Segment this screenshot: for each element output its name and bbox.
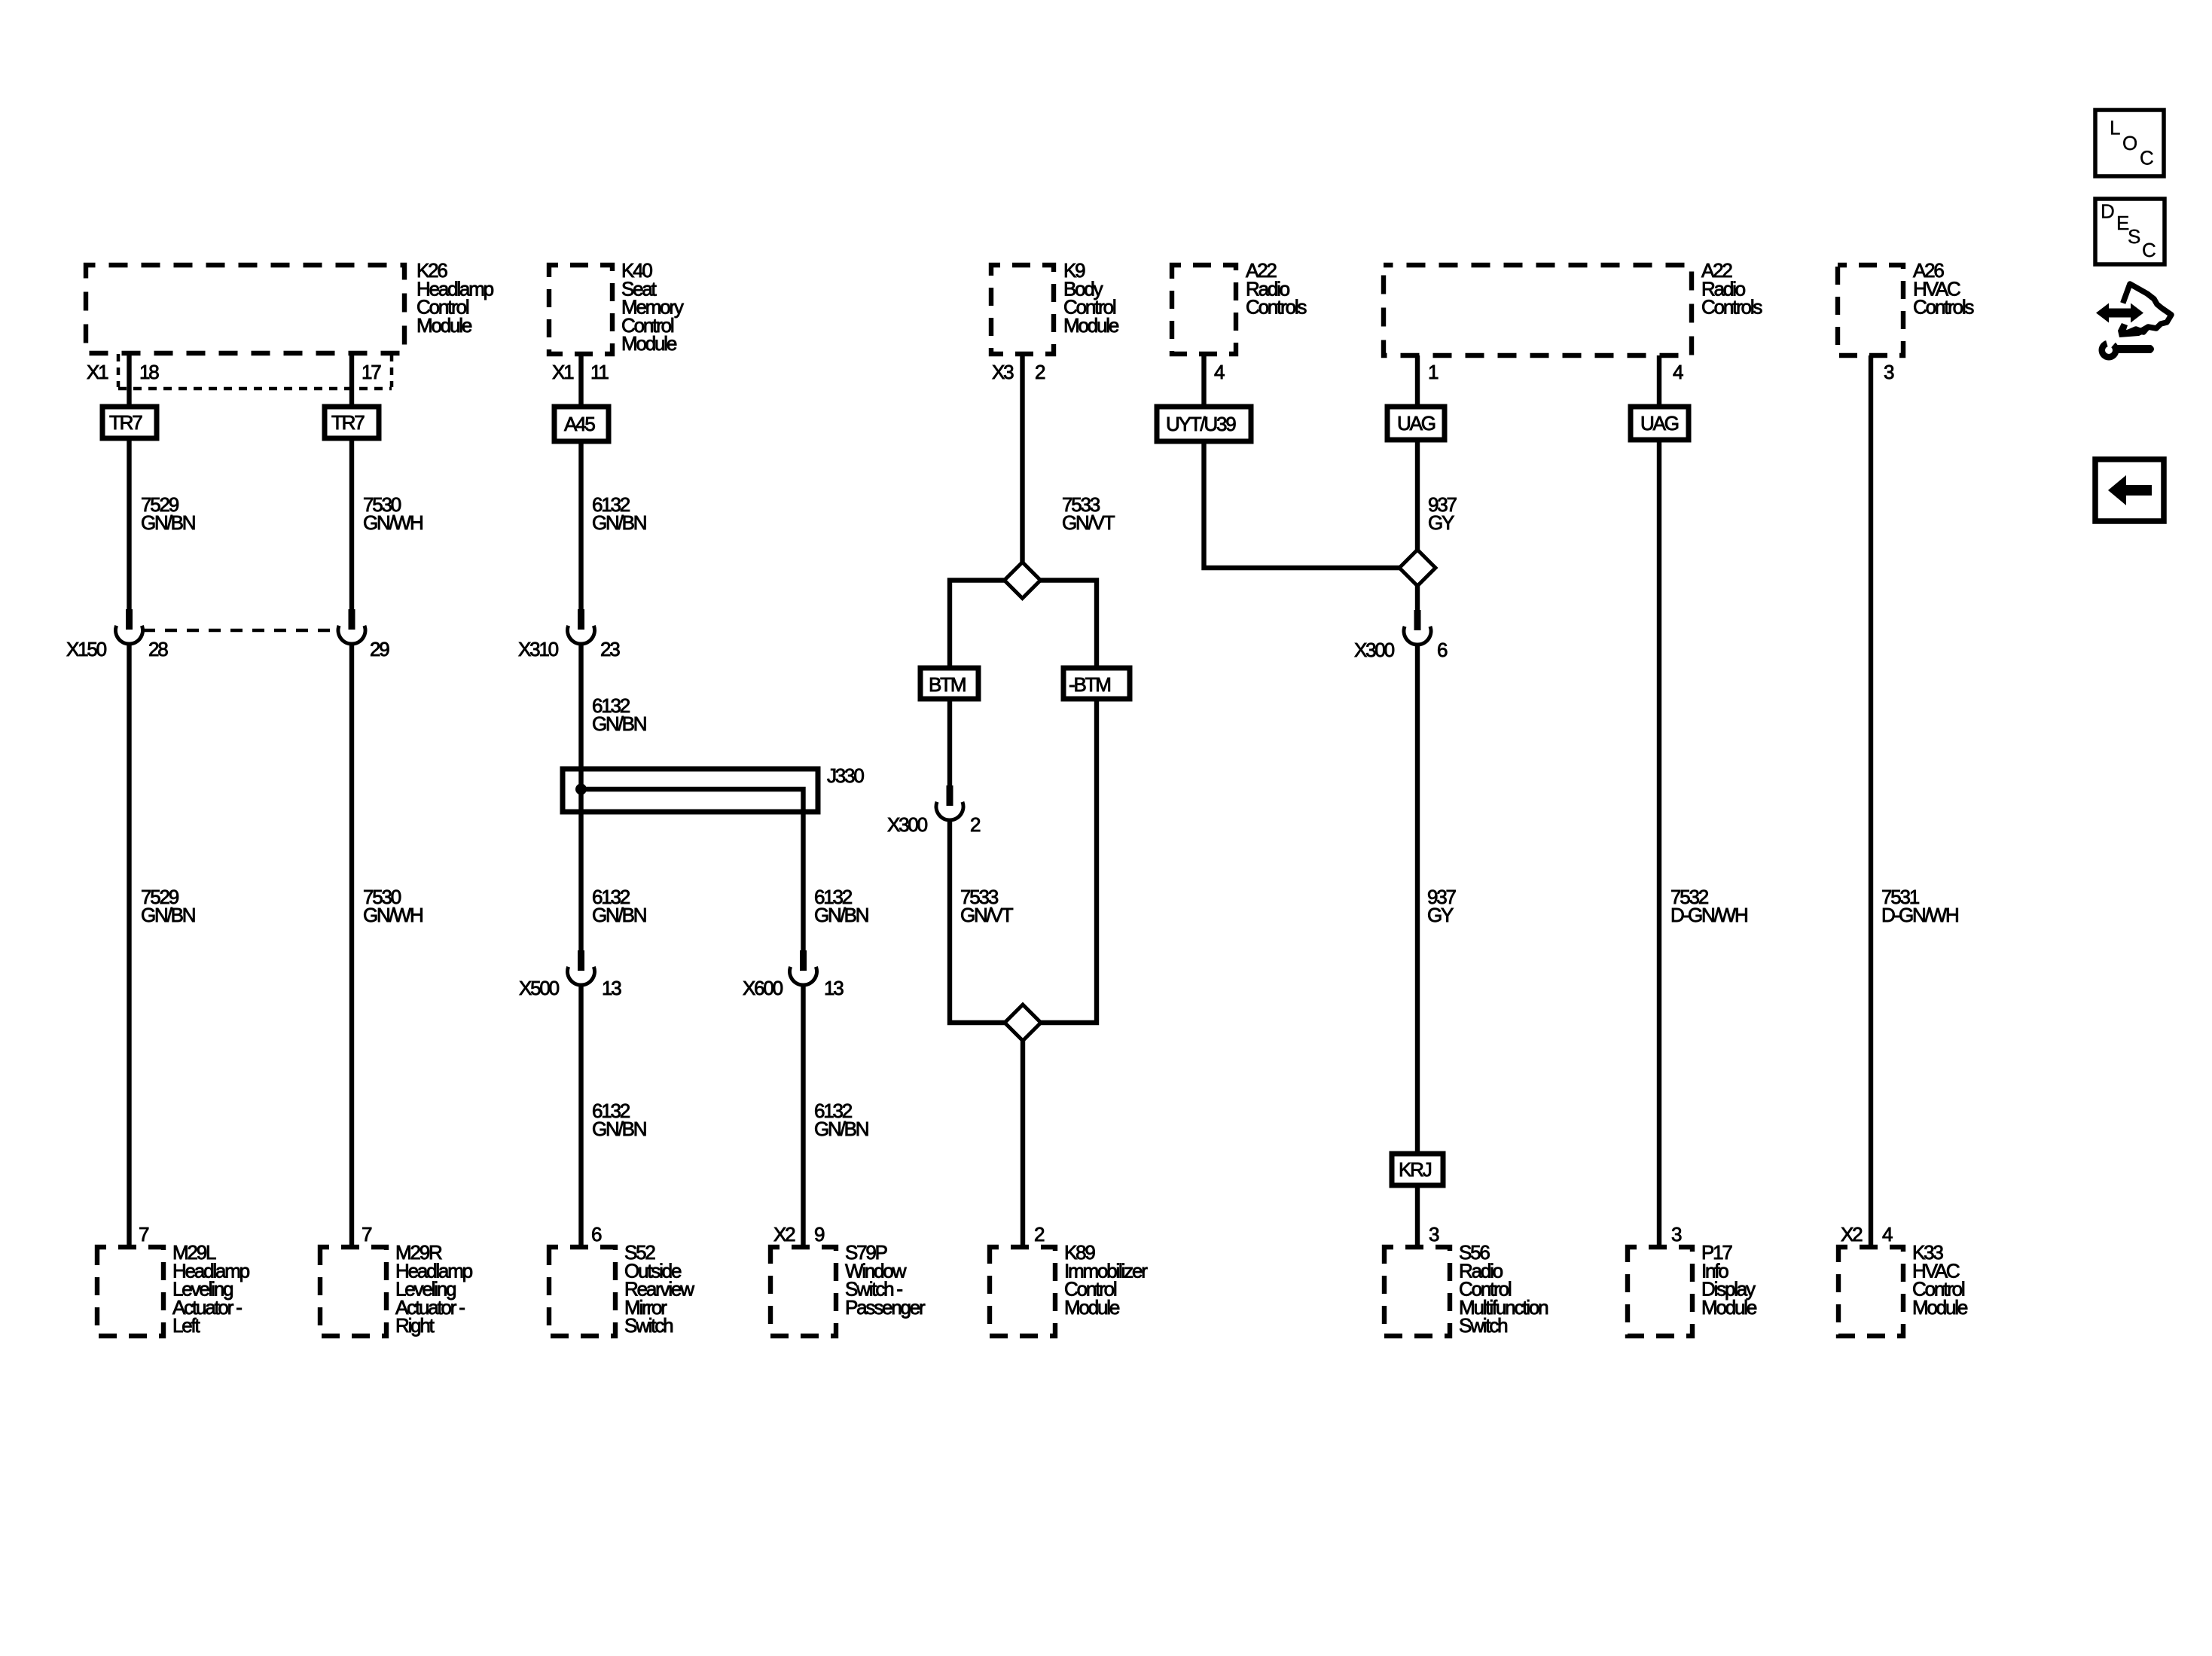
option BTM — [920, 668, 978, 699]
wire BTM to X300-2 — [947, 699, 952, 785]
wire A45 to X310-23 — [578, 441, 583, 609]
svg-text:X500: X500 — [519, 977, 560, 999]
svg-text:GY: GY — [1427, 904, 1454, 926]
module K40 Seat Memory Control Module (dashed box) — [549, 265, 612, 354]
wire TR7 to X150-29 — [349, 438, 354, 609]
wire K26 X1-18 to TR7 — [127, 353, 131, 407]
svg-text:X3: X3 — [992, 361, 1014, 383]
svg-text:X1: X1 — [552, 361, 574, 383]
option KRJ — [1392, 1154, 1443, 1185]
svg-text:6: 6 — [1437, 639, 1448, 661]
module K26 Headlamp Control Module (dashed box) — [86, 265, 404, 353]
wire diamond to X300-6 — [1415, 586, 1420, 610]
svg-text:X300: X300 — [1354, 639, 1395, 661]
svg-text:13: 13 — [602, 977, 621, 999]
connector X1 strip of K26 (thin dashed) — [117, 354, 121, 387]
svg-text:13: 13 — [824, 977, 844, 999]
svg-text:Module: Module — [621, 332, 677, 355]
wire X150-29 to M29R pin 7 — [349, 642, 354, 1247]
wire UAG to P17 pin 3 — [1657, 440, 1661, 1247]
svg-text:2: 2 — [970, 813, 981, 836]
svg-text:X1: X1 — [87, 361, 108, 383]
module K89 Immobilizer Control Module (dashed box) — [990, 1247, 1055, 1336]
wire diamond to BTM — [950, 581, 1005, 669]
svg-text:UYT/U39: UYT/U39 — [1166, 413, 1236, 435]
svg-text:23: 23 — [600, 638, 620, 660]
svg-text:GN/BN: GN/BN — [141, 904, 195, 926]
junction dot in J330 — [575, 784, 587, 795]
connector X310 pin 23 (breakaway) — [578, 609, 584, 630]
icon harness repair (arrows and wrench) — [2096, 303, 2143, 323]
splice diamond (K9 branch) — [1005, 563, 1041, 599]
svg-text:L: L — [2110, 117, 2120, 139]
svg-text:Right: Right — [395, 1314, 435, 1337]
svg-text:Controls: Controls — [1246, 296, 1307, 319]
svg-text:18: 18 — [139, 361, 159, 383]
wire merge diamond to K89 pin 2 — [1021, 1041, 1025, 1247]
module A22 Radio Controls large (dashed box) — [1384, 265, 1692, 355]
svg-text:C: C — [2140, 147, 2154, 169]
svg-text:X150: X150 — [66, 638, 107, 660]
svg-text:GN/BN: GN/BN — [814, 904, 868, 926]
svg-text:17: 17 — [362, 361, 381, 383]
wire A22 pin4 to UYT/U39 — [1201, 354, 1206, 407]
module M29L Headlamp Leveling Actuator - Left (dashed box) — [97, 1247, 163, 1336]
bus wire J330 to X600 branch — [581, 789, 804, 950]
module A26 HVAC Controls (dashed box) — [1838, 265, 1903, 355]
svg-text:Left: Left — [172, 1314, 201, 1337]
wire K26 X1-17 to TR7 — [349, 353, 354, 407]
wire X150-28 to M29L pin 7 — [127, 642, 131, 1247]
module K33 HVAC Control Module (dashed box) — [1838, 1247, 1903, 1336]
svg-text:D-GN/WH: D-GN/WH — [1881, 904, 1958, 926]
svg-text:Module: Module — [1063, 314, 1119, 337]
svg-text:UAG: UAG — [1640, 412, 1679, 435]
wire X300-2 to merge diamond — [950, 819, 1005, 1023]
wire UAG to merge diamond — [1415, 440, 1420, 550]
connector X150 pin 28 (breakaway) — [126, 609, 133, 630]
connector X600 pin 13 (breakaway) — [800, 950, 807, 971]
svg-text:-BTM: -BTM — [1069, 673, 1110, 696]
module M29R Headlamp Leveling Actuator - Right (dashed box) — [320, 1247, 386, 1336]
fuse TR7 (left) — [102, 407, 157, 438]
svg-text:4: 4 — [1882, 1223, 1893, 1246]
wire A26 pin3 to K33 X2-4 — [1869, 355, 1873, 1247]
merge diamond (to K89) — [1005, 1005, 1041, 1041]
merge diamond (937 GY) — [1399, 550, 1436, 586]
svg-text:3: 3 — [1429, 1223, 1439, 1246]
svg-text:Switch: Switch — [624, 1314, 673, 1337]
svg-text:TR7: TR7 — [109, 411, 142, 434]
svg-text:X300: X300 — [887, 813, 928, 836]
svg-text:GN/BN: GN/BN — [141, 511, 195, 534]
svg-text:4: 4 — [1673, 361, 1683, 383]
svg-text:Module: Module — [1701, 1296, 1757, 1319]
module P17 Info Display Module (dashed box) — [1628, 1247, 1692, 1336]
svg-text:X2: X2 — [773, 1223, 795, 1246]
svg-text:C: C — [2142, 239, 2156, 261]
svg-text:GN/BN: GN/BN — [592, 511, 646, 534]
svg-text:S: S — [2128, 225, 2140, 248]
svg-text:TR7: TR7 — [331, 411, 365, 434]
wire KRJ to S56 pin 3 — [1415, 1185, 1420, 1247]
svg-text:A45: A45 — [564, 413, 595, 435]
svg-text:GN/WH: GN/WH — [363, 511, 423, 534]
svg-text:Switch: Switch — [1459, 1314, 1507, 1337]
svg-text:29: 29 — [370, 638, 389, 660]
option UYT/U39 — [1157, 407, 1251, 441]
icon LOC box — [2095, 110, 2164, 176]
svg-text:2: 2 — [1035, 361, 1045, 383]
svg-text:X310: X310 — [518, 638, 559, 660]
svg-text:GN/VT: GN/VT — [1062, 511, 1115, 534]
connector X300 pin 6 (breakaway) — [1414, 610, 1421, 630]
svg-text:28: 28 — [148, 638, 168, 660]
wire X310-23 to J330 — [578, 642, 583, 950]
svg-text:GN/BN: GN/BN — [814, 1118, 868, 1140]
wire -BTM to merge diamond — [1041, 699, 1097, 1023]
svg-text:X600: X600 — [743, 977, 783, 999]
option UAG (left) — [1387, 407, 1445, 440]
svg-text:1: 1 — [1428, 361, 1439, 383]
svg-text:GN/BN: GN/BN — [592, 1118, 646, 1140]
splice pack J330 (box) — [563, 769, 818, 812]
connector X150 pin 29 (breakaway) — [349, 609, 355, 630]
svg-text:Controls: Controls — [1701, 296, 1762, 319]
module K9 Body Control Module (dashed box) — [991, 265, 1054, 354]
svg-text:GN/BN: GN/BN — [592, 712, 646, 735]
svg-text:6: 6 — [591, 1223, 602, 1246]
svg-text:GN/VT: GN/VT — [960, 904, 1014, 926]
module S52 Outside Rearview Mirror Switch (dashed box) — [549, 1247, 615, 1336]
svg-text:Passenger: Passenger — [845, 1296, 926, 1319]
fuse TR7 (right) — [325, 407, 379, 438]
connector X300 pin 2 (breakaway) — [947, 785, 953, 806]
connector X500 pin 13 (breakaway) — [578, 950, 584, 971]
svg-text:UAG: UAG — [1397, 412, 1436, 435]
svg-text:4: 4 — [1214, 361, 1225, 383]
svg-text:Module: Module — [1064, 1296, 1120, 1319]
svg-text:2: 2 — [1034, 1223, 1045, 1246]
wire diamond to -BTM — [1040, 581, 1097, 669]
wire X600-13 to S79P X2-9 — [801, 984, 805, 1247]
wire TR7 to X150-28 — [127, 438, 131, 609]
icon DESC box — [2095, 199, 2165, 264]
svg-text:KRJ: KRJ — [1399, 1158, 1432, 1181]
wire A22 pin1 to UAG — [1415, 355, 1420, 407]
option UAG (right) — [1631, 407, 1689, 440]
wire X500-13 to S52 pin 6 — [578, 984, 583, 1247]
dashed link between X150 connectors — [143, 629, 337, 633]
svg-text:Controls: Controls — [1913, 296, 1974, 319]
svg-text:GN/WH: GN/WH — [363, 904, 423, 926]
module A22 Radio Controls small (dashed box) — [1172, 265, 1236, 354]
wire K40 X1-11 to A45 — [578, 354, 583, 407]
wire K9 X3-2 to splice diamond — [1020, 354, 1024, 563]
option -BTM — [1063, 668, 1130, 699]
svg-text:Module: Module — [416, 314, 472, 337]
svg-text:9: 9 — [814, 1223, 825, 1246]
svg-text:GN/BN: GN/BN — [592, 904, 646, 926]
wire UYT/U39 to merge diamond — [1204, 441, 1400, 568]
svg-text:11: 11 — [590, 361, 609, 383]
fuse A45 — [554, 407, 609, 441]
wire A22 pin4 to UAG (right) — [1657, 355, 1661, 407]
svg-text:O: O — [2122, 132, 2137, 154]
svg-text:7: 7 — [139, 1223, 149, 1246]
module S79P Window Switch - Passenger (dashed box) — [770, 1247, 836, 1336]
svg-text:7: 7 — [362, 1223, 372, 1246]
svg-text:D-GN/WH: D-GN/WH — [1670, 904, 1747, 926]
svg-text:J330: J330 — [827, 764, 864, 787]
module S56 Radio Control Multifunction Switch (dashed box) — [1384, 1247, 1450, 1336]
svg-text:D: D — [2101, 200, 2115, 223]
svg-text:BTM: BTM — [929, 673, 966, 696]
icon back-arrow box — [2095, 459, 2164, 521]
svg-text:GY: GY — [1428, 511, 1454, 534]
svg-text:3: 3 — [1884, 361, 1894, 383]
svg-text:3: 3 — [1671, 1223, 1682, 1246]
svg-text:X2: X2 — [1841, 1223, 1863, 1246]
svg-text:Module: Module — [1912, 1296, 1968, 1319]
wire X300-6 to KRJ — [1415, 643, 1420, 1154]
